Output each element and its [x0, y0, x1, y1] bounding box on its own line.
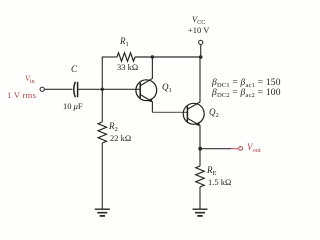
label 10 uF [63, 101, 83, 111]
Vcc terminal [199, 40, 203, 44]
capacitor C [74, 82, 76, 97]
input terminal Vin [40, 87, 44, 91]
resistor RE [196, 166, 204, 187]
label 1 V rms [7, 90, 36, 100]
label 1.5 kOhm [208, 177, 231, 187]
wire RE to ground [199, 187, 201, 209]
label Q2 [209, 107, 219, 119]
wire R2 to ground [101, 143, 103, 209]
label 33 kOhm [117, 62, 138, 72]
wire Q2 emitter down to output node [199, 125, 201, 148]
label Vin [25, 74, 35, 85]
transistor Q2 [183, 102, 204, 126]
ground right [193, 209, 208, 216]
label Vout [247, 142, 261, 154]
wire Q2 collector [199, 57, 201, 102]
wire capacitor to base node [78, 88, 140, 90]
wire Vcc stub [200, 45, 202, 57]
junction dot above Q1 [151, 55, 154, 58]
junction dot below Vcc [199, 55, 203, 59]
wire Q1 emitter down [151, 102, 153, 113]
wire base node up to R1 corner [101, 57, 103, 90]
label RE [207, 165, 216, 177]
wire Q1 emitter to Q2 base [152, 111, 187, 113]
label beta line 2 [212, 88, 281, 99]
label +10 V [188, 25, 209, 35]
wire R1 to junction [135, 56, 152, 58]
wire red Vout segment [231, 148, 238, 150]
label VCC [192, 14, 205, 26]
wire corner to R1 [102, 56, 117, 58]
node A (base node junction) [101, 88, 104, 91]
output node junction [198, 147, 202, 151]
wire output node down to RE [199, 149, 201, 166]
ground left [95, 209, 110, 216]
label beta line 1 [212, 78, 281, 89]
wire base node down to R2 [101, 89, 103, 122]
label C [71, 64, 77, 74]
wire rail to Vcc junction [152, 56, 200, 58]
wire Q1 collector [151, 57, 153, 79]
wire input terminal to capacitor [44, 88, 72, 90]
transistor Q1 [136, 78, 157, 102]
label R1 [120, 36, 129, 48]
label R2 [109, 121, 118, 133]
resistor R1 [117, 53, 135, 61]
label 22 kOhm [110, 133, 131, 143]
Vout terminal [239, 147, 243, 151]
resistor R2 [98, 122, 106, 143]
wire output node to Vout [200, 148, 231, 150]
label Q1 [162, 82, 172, 94]
